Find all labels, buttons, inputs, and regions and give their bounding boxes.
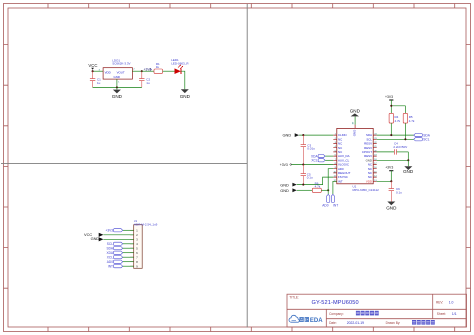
Company value CJK <box>356 311 379 316</box>
svg-text:GND: GND <box>112 94 123 99</box>
border zone ticks left <box>4 45 9 289</box>
ground under LDO <box>112 87 123 99</box>
port GND clkin <box>283 133 300 138</box>
svg-text:EDA: EDA <box>310 318 323 324</box>
resistor R1 <box>154 62 163 73</box>
wire GND row <box>377 159 409 161</box>
svg-text:GND: GND <box>283 133 292 138</box>
svg-text:GND: GND <box>114 75 120 79</box>
svg-text:GND: GND <box>403 169 414 174</box>
svg-text:XCL: XCL <box>107 256 113 260</box>
svg-text:INT: INT <box>338 179 343 183</box>
divider line vertical <box>246 4 248 328</box>
svg-text:AD0: AD0 <box>322 204 328 208</box>
wire CPOUT down <box>407 152 409 160</box>
node VDD <box>390 180 392 182</box>
svg-text:TITLE:: TITLE: <box>289 295 299 299</box>
svg-text:2022-01-19: 2022-01-19 <box>347 321 364 325</box>
net label SDA <box>106 247 122 251</box>
svg-text:XDA: XDA <box>106 251 113 255</box>
svg-text:4.7k: 4.7k <box>409 119 415 123</box>
svg-text:1u: 1u <box>97 81 101 85</box>
svg-text:GND: GND <box>280 182 289 187</box>
wire +3V3 to VDD <box>377 171 392 182</box>
net label XDA <box>311 154 325 158</box>
op-amp LDO1 SC662K-3.3V body <box>103 58 132 79</box>
net label SCL <box>414 138 430 142</box>
pin numbers right <box>374 134 377 182</box>
border zone ticks right <box>466 45 471 289</box>
net flag +3V3 <box>144 68 152 72</box>
net label AD0 vertical <box>322 194 330 207</box>
wire SDA pin5 <box>123 247 134 249</box>
pin numbers left <box>333 134 336 182</box>
wire pin1 <box>123 229 134 231</box>
pin stubs J1 <box>130 230 134 266</box>
pin stubs right <box>373 135 377 181</box>
wire XDA to AUX_DA <box>325 155 333 157</box>
wire AD0 net <box>328 169 333 195</box>
divider line horizontal <box>1 162 247 164</box>
wire VCC to VDD pin <box>93 70 104 72</box>
node C5 bottom <box>302 184 304 186</box>
node SCL <box>404 138 406 140</box>
wire XDA pin6 <box>123 252 134 254</box>
svg-text:Date:: Date: <box>329 321 337 325</box>
node SDA <box>390 134 392 136</box>
ground under LED <box>180 89 191 99</box>
svg-text:AD0: AD0 <box>107 260 113 264</box>
wire R1 to LED1 <box>163 70 175 72</box>
wire LDO GND pin <box>116 79 118 87</box>
wire top GND pin <box>354 116 356 124</box>
wire INT net <box>333 181 337 194</box>
wire R5 to SCL <box>404 123 406 139</box>
wire SCL row <box>377 138 414 140</box>
svg-text:1/1: 1/1 <box>452 312 457 316</box>
svg-text:GY-521-MPU6050: GY-521-MPU6050 <box>312 300 359 306</box>
net label XDA <box>106 251 122 255</box>
capacitor C6 <box>389 181 403 201</box>
svg-text:+3V3: +3V3 <box>280 163 288 167</box>
ground above U1 <box>350 108 361 116</box>
pin numbers 1-9 <box>136 228 138 268</box>
svg-text:SC662K-3.3V: SC662K-3.3V <box>112 62 130 66</box>
wire R6 to AD0 node <box>321 189 328 191</box>
svg-text:SDA: SDA <box>106 247 113 251</box>
capacitor C1 <box>90 71 101 87</box>
node VCC junction <box>92 70 94 72</box>
net flag +3V3 pill <box>105 229 122 233</box>
svg-text:0.01u: 0.01u <box>307 147 315 151</box>
svg-text:HDR-M-2.54_1x9: HDR-M-2.54_1x9 <box>134 223 158 227</box>
pin stub top GND <box>354 125 356 129</box>
svg-text:GND: GND <box>353 130 357 136</box>
wire +3V3 to VLOGIC <box>292 164 334 166</box>
node ground rail junction <box>116 86 118 88</box>
wire AD0 pin8 <box>123 261 134 263</box>
wire VCC to pin2 <box>103 234 133 236</box>
net label SCL <box>107 242 123 246</box>
node C5 top <box>302 163 304 165</box>
svg-text:0.1u: 0.1u <box>307 176 313 180</box>
svg-text:Drawn By:: Drawn By: <box>386 321 401 325</box>
svg-text:+3V3: +3V3 <box>385 95 393 99</box>
net label SDA <box>414 133 431 137</box>
net label AD0 <box>107 260 123 264</box>
svg-text:XCL: XCL <box>311 159 317 163</box>
wire XCL to AUX_CL <box>325 159 333 161</box>
svg-text:Sheet:: Sheet: <box>437 312 446 316</box>
capacitor C2 <box>139 71 150 87</box>
wire +3V3 to R4 R5 <box>391 100 405 113</box>
svg-text:4.7k: 4.7k <box>395 119 401 123</box>
wire ground rail <box>93 86 142 88</box>
logo EasyEDA <box>289 315 323 324</box>
connector J1 HDR-M-2.54_1x9 body <box>134 219 158 268</box>
svg-text:LED-0603_R: LED-0603_R <box>171 61 189 65</box>
node VOUT junction <box>141 70 143 72</box>
svg-text:1k: 1k <box>156 65 160 69</box>
svg-text:0.1u: 0.1u <box>396 190 402 194</box>
wire VOUT to +3V3 node <box>132 70 141 72</box>
node AD0 <box>327 189 329 191</box>
capacitor C4 <box>377 142 409 155</box>
svg-text:GND: GND <box>350 108 361 113</box>
wire INT pin9 <box>123 265 134 267</box>
wire LED cathode to ground <box>181 71 185 89</box>
svg-text:SCL: SCL <box>423 138 429 142</box>
wire R4 to SDA <box>390 123 392 135</box>
svg-text:MPU-6050_C24112: MPU-6050_C24112 <box>353 188 380 192</box>
pin names right <box>362 133 373 183</box>
wire GND to R6 <box>297 189 313 191</box>
svg-text:+3V3: +3V3 <box>385 166 393 170</box>
title block frame <box>287 294 467 327</box>
border zone ticks bottom <box>48 327 455 332</box>
DrawnBy value CJK <box>412 320 435 325</box>
svg-text:1.0: 1.0 <box>449 301 454 305</box>
pin stubs left <box>333 135 337 181</box>
wire to ground <box>407 160 409 166</box>
ground vdd <box>386 202 397 211</box>
svg-text:4.7k: 4.7k <box>315 184 321 188</box>
svg-text:REV:: REV: <box>436 301 443 305</box>
svg-text:GND: GND <box>180 94 191 99</box>
net label XCL <box>107 256 123 260</box>
svg-text:SCL: SCL <box>107 242 113 246</box>
pin names left <box>338 133 351 183</box>
net flag VCC <box>88 63 97 70</box>
wire GND rail to FSYNC <box>297 177 334 185</box>
wire SCL pin4 <box>123 243 134 245</box>
net flag +3V3 vlogic <box>280 163 292 167</box>
svg-text:VDD: VDD <box>105 70 111 74</box>
net label XCL <box>311 159 325 163</box>
node pullup top <box>390 105 392 107</box>
wire XCL pin7 <box>123 256 134 258</box>
svg-text:INT: INT <box>333 204 338 208</box>
svg-text:Company:: Company: <box>329 312 344 316</box>
LED LED1 LED-0603_R <box>171 58 189 74</box>
net flag +3V3 vdd <box>385 166 393 171</box>
port GND r6 <box>280 188 297 193</box>
net label INT <box>108 265 123 269</box>
svg-text:GND: GND <box>91 236 100 241</box>
capacitor C3 <box>301 135 316 164</box>
svg-text:INT: INT <box>108 265 113 269</box>
wire GND to CLKIN <box>299 134 333 136</box>
border zone ticks top <box>48 4 455 9</box>
net label INT vertical <box>331 194 338 207</box>
IC U1 MPU-6050_C24112 body <box>337 128 379 192</box>
resistor R4 <box>389 113 401 123</box>
port GND <box>91 236 104 241</box>
capacitor C5 <box>301 165 313 185</box>
wire GND to pin3 <box>103 238 133 240</box>
svg-text:VDD: VDD <box>366 179 372 183</box>
wire +3V3 to R1 <box>142 70 154 72</box>
node gnd cpout <box>407 159 409 161</box>
resistor R6 <box>312 181 321 192</box>
svg-text:VOUT: VOUT <box>117 70 125 74</box>
svg-text:GND: GND <box>280 188 289 193</box>
svg-text:1u: 1u <box>146 81 150 85</box>
port GND c5 <box>280 182 297 187</box>
node C3 top <box>302 134 304 136</box>
port VCC <box>84 232 103 237</box>
svg-text:2.2nF/50V: 2.2nF/50V <box>393 145 407 149</box>
ground cpout <box>403 166 414 174</box>
net flag +3V3 pullups <box>385 95 393 100</box>
resistor R5 <box>403 113 415 123</box>
wire SDA row <box>377 134 414 136</box>
svg-text:+3V3: +3V3 <box>105 229 113 233</box>
svg-text:GND: GND <box>386 206 397 211</box>
svg-text:VCC: VCC <box>88 63 97 68</box>
